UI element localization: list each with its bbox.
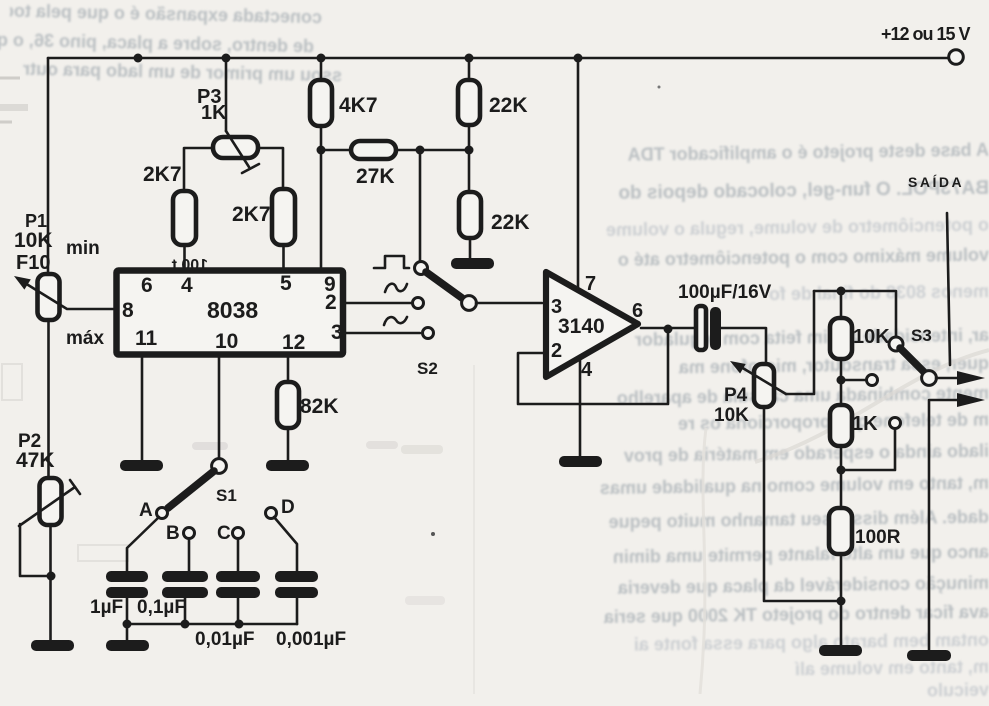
svg-text:22K: 22K [491, 211, 530, 234]
svg-text:4K7: 4K7 [339, 94, 378, 117]
svg-text:0,01µF: 0,01µF [195, 629, 255, 650]
svg-text:1µF: 1µF [90, 597, 123, 618]
svg-text:min: min [66, 238, 100, 259]
svg-text:F10: F10 [16, 252, 50, 274]
svg-text:100R: 100R [855, 527, 901, 548]
svg-text:3140: 3140 [558, 315, 605, 338]
svg-text:B: B [166, 523, 180, 544]
svg-text:2: 2 [325, 291, 337, 314]
svg-text:+12 ou 15 V: +12 ou 15 V [881, 24, 971, 44]
svg-text:12: 12 [282, 331, 305, 354]
svg-text:0,001µF: 0,001µF [276, 629, 346, 650]
svg-text:P4: P4 [724, 385, 748, 406]
svg-text:2K7: 2K7 [232, 203, 271, 226]
svg-text:27K: 27K [356, 165, 395, 188]
svg-text:1K: 1K [201, 102, 227, 124]
svg-text:D: D [281, 497, 295, 518]
svg-text:5: 5 [280, 272, 292, 295]
svg-text:2: 2 [551, 340, 562, 362]
svg-text:82K: 82K [300, 395, 339, 418]
svg-text:P1: P1 [25, 211, 47, 231]
svg-text:C: C [217, 523, 231, 544]
svg-text:10: 10 [215, 330, 238, 353]
svg-text:22K: 22K [489, 94, 528, 117]
svg-text:8: 8 [122, 299, 134, 322]
svg-text:47K: 47K [16, 449, 55, 472]
svg-text:3: 3 [331, 321, 343, 344]
svg-text:1K: 1K [852, 413, 878, 435]
svg-text:A: A [139, 500, 153, 521]
svg-text:8038: 8038 [207, 297, 258, 323]
svg-text:4: 4 [181, 274, 193, 297]
svg-text:S2: S2 [417, 359, 438, 378]
svg-text:6: 6 [632, 300, 643, 322]
svg-text:S3: S3 [911, 326, 932, 345]
svg-text:S1: S1 [216, 486, 237, 505]
svg-text:7: 7 [585, 273, 596, 295]
svg-text:10K: 10K [714, 405, 749, 426]
svg-text:4: 4 [581, 359, 593, 381]
svg-text:máx: máx [66, 328, 104, 349]
svg-text:100µF/16V: 100µF/16V [678, 282, 772, 303]
svg-text:3: 3 [551, 296, 562, 318]
svg-text:10K: 10K [14, 229, 53, 252]
svg-text:6: 6 [141, 274, 153, 297]
svg-text:10K: 10K [853, 326, 890, 348]
svg-text:SAÍDA: SAÍDA [908, 174, 964, 190]
svg-text:2K7: 2K7 [143, 163, 182, 186]
svg-text:11: 11 [135, 327, 158, 350]
svg-text:0,1µF: 0,1µF [137, 597, 186, 618]
